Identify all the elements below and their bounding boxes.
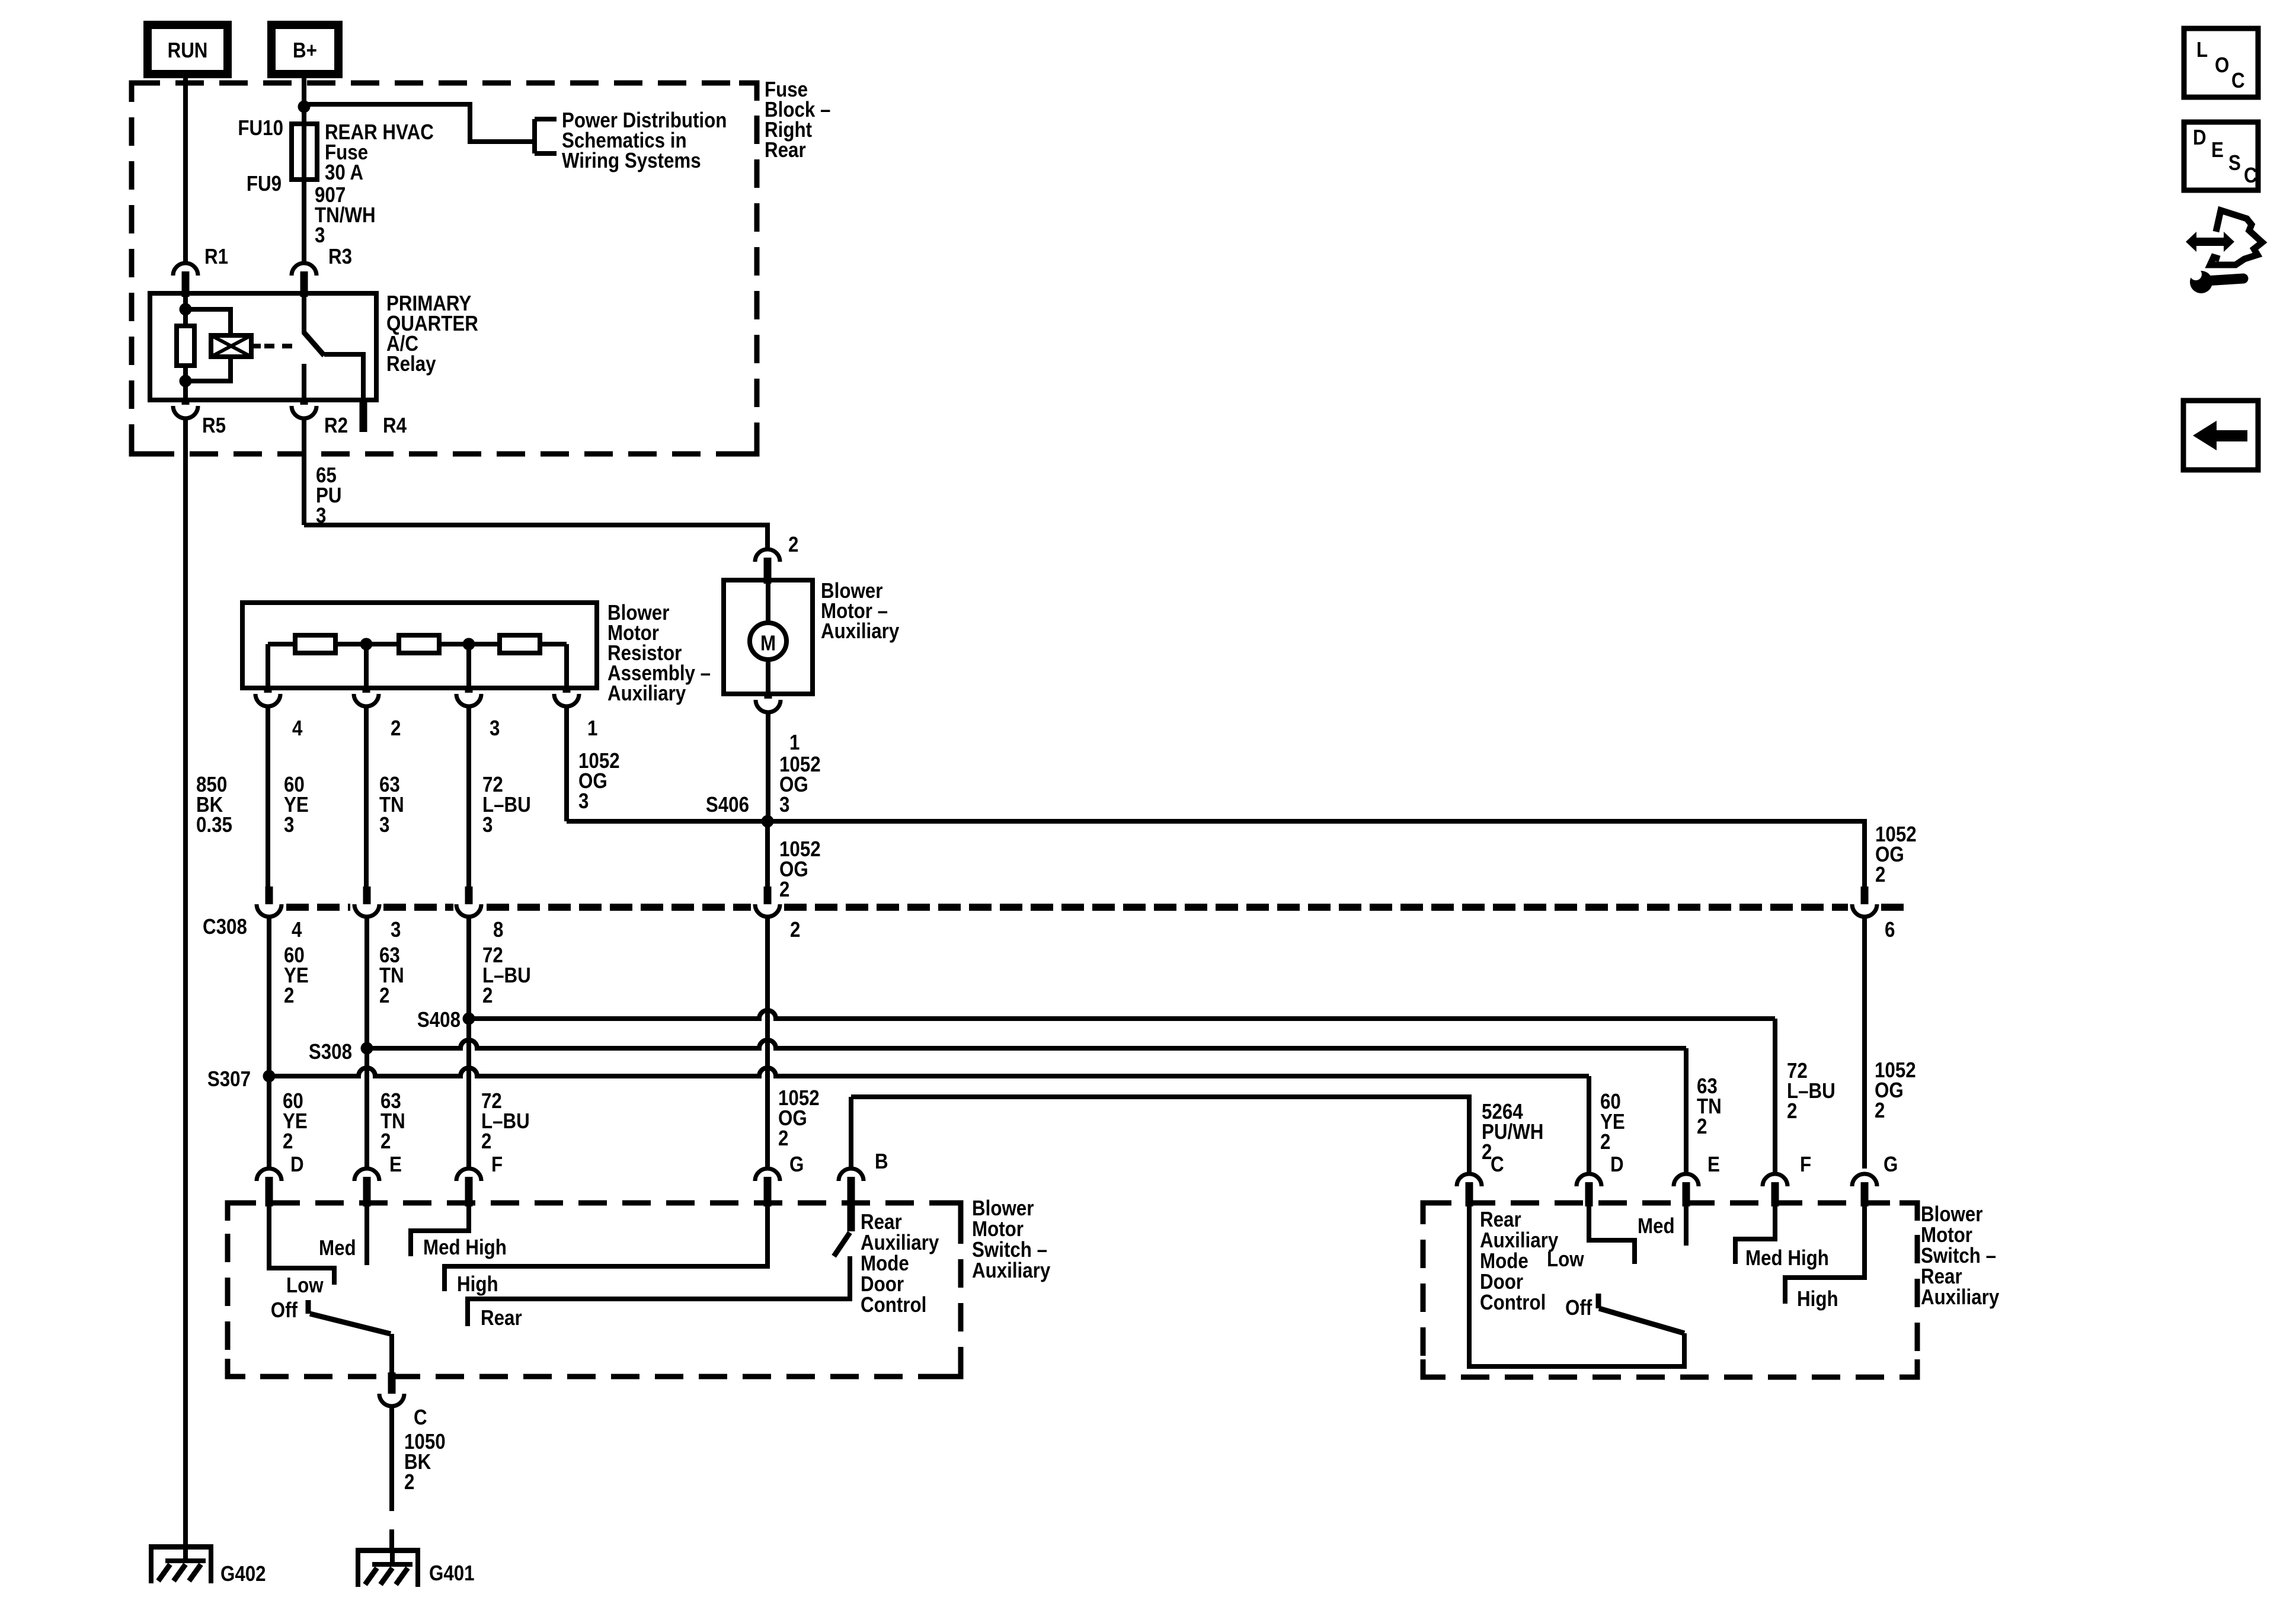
svg-text:C: C <box>2244 164 2257 188</box>
svg-text:Wiring Systems: Wiring Systems <box>562 149 701 173</box>
svg-text:E: E <box>2211 138 2224 162</box>
svg-text:Off: Off <box>1565 1296 1593 1320</box>
svg-text:E: E <box>389 1153 402 1177</box>
svg-text:8: 8 <box>493 918 503 942</box>
svg-text:FU10: FU10 <box>238 116 283 140</box>
svg-text:Auxiliary: Auxiliary <box>607 681 686 706</box>
svg-text:3: 3 <box>391 918 401 942</box>
svg-text:G402: G402 <box>220 1562 266 1586</box>
svg-text:B+: B+ <box>293 39 317 63</box>
svg-text:3: 3 <box>482 813 493 837</box>
svg-text:2: 2 <box>790 918 800 942</box>
svg-text:R1: R1 <box>204 245 228 269</box>
svg-text:F: F <box>491 1153 503 1177</box>
svg-text:G: G <box>789 1153 804 1177</box>
svg-text:2: 2 <box>481 1129 491 1154</box>
svg-text:C: C <box>2231 69 2245 93</box>
svg-text:4: 4 <box>292 716 303 741</box>
svg-text:3: 3 <box>779 793 789 817</box>
svg-text:6: 6 <box>1885 918 1895 942</box>
svg-text:3: 3 <box>578 789 589 814</box>
svg-text:C: C <box>1491 1153 1504 1177</box>
svg-text:RUN: RUN <box>168 39 208 63</box>
svg-text:R2: R2 <box>324 414 348 438</box>
svg-text:0.35: 0.35 <box>196 813 232 837</box>
svg-text:4: 4 <box>292 918 302 942</box>
svg-text:2: 2 <box>380 1129 391 1154</box>
svg-text:2: 2 <box>284 984 294 1008</box>
svg-text:Auxiliary: Auxiliary <box>972 1259 1050 1283</box>
svg-text:S408: S408 <box>417 1008 461 1032</box>
svg-text:2: 2 <box>391 716 401 741</box>
svg-text:S307: S307 <box>207 1067 251 1092</box>
svg-text:2: 2 <box>482 984 493 1008</box>
svg-text:2: 2 <box>788 533 798 557</box>
svg-text:M: M <box>760 632 776 656</box>
svg-text:2: 2 <box>778 1126 788 1151</box>
svg-text:2: 2 <box>283 1129 293 1154</box>
svg-text:C308: C308 <box>203 915 247 939</box>
svg-text:3: 3 <box>316 504 326 528</box>
svg-text:S308: S308 <box>309 1040 352 1064</box>
svg-text:1: 1 <box>587 716 597 741</box>
svg-text:2: 2 <box>1875 1099 1885 1123</box>
svg-text:Auxiliary: Auxiliary <box>1921 1285 1999 1310</box>
svg-text:Rear: Rear <box>765 138 806 162</box>
svg-text:Low: Low <box>1547 1247 1584 1272</box>
svg-text:G401: G401 <box>429 1561 475 1586</box>
svg-text:R4: R4 <box>383 414 407 438</box>
svg-text:B: B <box>875 1150 888 1174</box>
svg-text:High: High <box>457 1272 498 1297</box>
svg-text:2: 2 <box>404 1470 414 1494</box>
svg-text:High: High <box>1797 1287 1838 1311</box>
svg-text:1: 1 <box>789 731 800 755</box>
svg-text:G: G <box>1884 1153 1898 1177</box>
svg-text:R3: R3 <box>328 245 352 269</box>
svg-text:Rear: Rear <box>481 1306 522 1330</box>
svg-text:D: D <box>290 1153 304 1177</box>
svg-text:Control: Control <box>861 1293 926 1317</box>
svg-text:D: D <box>2193 126 2207 150</box>
svg-text:2: 2 <box>1787 1099 1797 1124</box>
svg-text:D: D <box>1610 1153 1624 1177</box>
svg-text:Control: Control <box>1480 1291 1546 1315</box>
svg-text:2: 2 <box>779 878 789 902</box>
svg-text:2: 2 <box>1600 1130 1610 1154</box>
svg-text:Med: Med <box>1638 1214 1675 1238</box>
svg-text:3: 3 <box>315 223 325 248</box>
svg-text:S406: S406 <box>706 793 749 817</box>
svg-text:2: 2 <box>379 984 389 1008</box>
svg-text:30 A: 30 A <box>325 161 363 185</box>
svg-text:E: E <box>1707 1153 1720 1177</box>
svg-text:Auxiliary: Auxiliary <box>821 619 899 644</box>
svg-text:Off: Off <box>271 1298 298 1323</box>
svg-text:C: C <box>414 1406 427 1430</box>
svg-text:3: 3 <box>379 813 389 837</box>
svg-text:2: 2 <box>1697 1115 1707 1139</box>
svg-text:R5: R5 <box>202 414 226 438</box>
svg-text:Med High: Med High <box>423 1235 507 1260</box>
svg-text:3: 3 <box>284 813 294 837</box>
svg-text:Med High: Med High <box>1745 1246 1829 1270</box>
svg-text:2: 2 <box>1875 863 1885 887</box>
svg-text:O: O <box>2215 53 2229 78</box>
svg-text:FU9: FU9 <box>247 172 282 196</box>
svg-text:S: S <box>2228 151 2241 175</box>
svg-text:Low: Low <box>286 1273 324 1298</box>
svg-text:3: 3 <box>490 716 500 741</box>
svg-text:Med: Med <box>319 1236 356 1260</box>
svg-text:L: L <box>2196 38 2208 62</box>
svg-text:F: F <box>1800 1153 1811 1177</box>
svg-text:Relay: Relay <box>386 352 436 376</box>
